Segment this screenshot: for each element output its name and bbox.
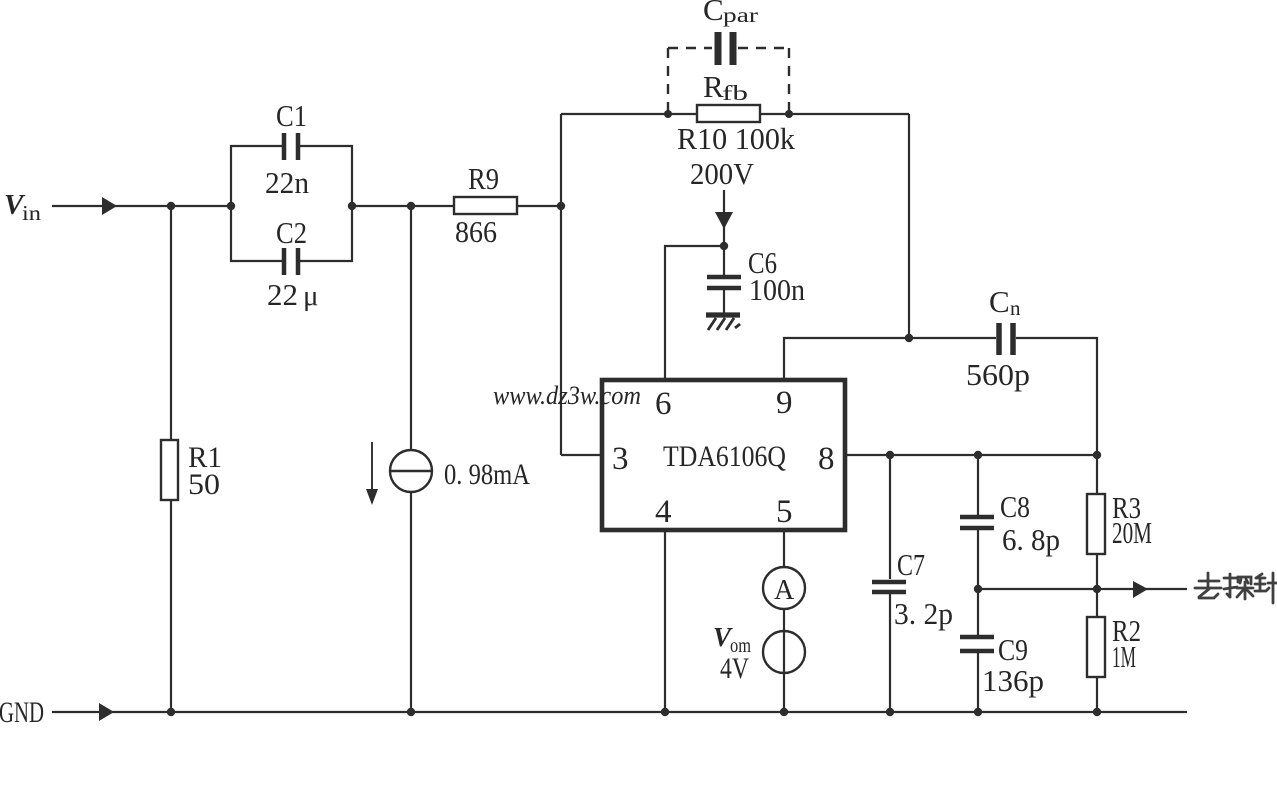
svg-text:100n: 100n	[749, 272, 805, 307]
node 去探针 label (drawn strokes)	[1195, 573, 1277, 603]
capacitor C6	[723, 246, 725, 276]
wire right feedback vertical	[908, 114, 910, 338]
capacitor Cpar (dashed)	[668, 48, 789, 112]
svg-text:n: n	[1010, 296, 1021, 320]
svg-text:8: 8	[818, 441, 835, 477]
svg-text:C8: C8	[1000, 489, 1030, 524]
wire left vertical (Vin to GND through R1)	[170, 206, 172, 440]
针	[1256, 574, 1262, 578]
wire R9 to feedback node	[517, 205, 561, 207]
svg-text:μ: μ	[303, 280, 319, 312]
svg-text:C9: C9	[998, 632, 1028, 667]
svg-text:4V: 4V	[720, 652, 749, 685]
svg-text:www.dz3w.com: www.dz3w.com	[493, 381, 641, 410]
current source direction arrow	[371, 442, 373, 492]
svg-text:C: C	[989, 284, 1010, 319]
wire C6 node to pin6	[665, 246, 724, 380]
探	[1229, 574, 1232, 597]
node GND/R1 junction	[167, 708, 175, 716]
svg-text:R9: R9	[468, 161, 499, 196]
wire probe rail	[978, 588, 1187, 590]
input arrow	[102, 197, 117, 215]
op-amp U1 TDA6106Q	[602, 380, 845, 530]
svg-text:200V: 200V	[690, 156, 755, 191]
wire pin9 to Cn	[784, 338, 996, 380]
node GND/C7 junction	[886, 708, 894, 716]
svg-text:9: 9	[776, 385, 793, 421]
svg-text:R: R	[703, 69, 724, 104]
capacitor C7	[889, 455, 891, 579]
wire pin5 to ammeter	[783, 530, 785, 567]
node Cn rail junction	[905, 334, 913, 342]
wire input node to cap box	[171, 205, 232, 207]
200V supply arrow	[723, 190, 725, 246]
200V supply label	[690, 156, 755, 191]
wire pin3 lead	[561, 454, 602, 456]
svg-text:C2: C2	[276, 215, 307, 250]
node C6 junction	[720, 242, 728, 250]
capacitor C1	[284, 133, 298, 160]
svg-text:50: 50	[188, 468, 220, 501]
wire Cn to right vertical	[1016, 338, 1097, 455]
capacitor C2	[284, 248, 298, 275]
node input junction	[167, 202, 175, 210]
wire cap box to R9	[352, 205, 454, 207]
node pin8/C8 junction	[974, 451, 982, 459]
wire Vin input lead	[52, 205, 171, 207]
node R9 right junction	[557, 202, 565, 210]
GND arrow	[99, 703, 114, 721]
resistor R9	[454, 197, 517, 214]
node pin8/R3 junction	[1093, 451, 1101, 459]
node current source branch junction	[407, 202, 415, 210]
去	[1207, 573, 1210, 588]
wire ammeter to Vom source	[783, 609, 785, 712]
svg-text:C: C	[703, 0, 724, 27]
node pin8/C7 junction	[886, 451, 894, 459]
node GND/current source junction	[407, 708, 415, 716]
node GND/Vom junction	[780, 708, 788, 716]
svg-text:C7: C7	[897, 547, 925, 582]
svg-text:TDA6106Q: TDA6106Q	[663, 440, 786, 473]
svg-text:1M: 1M	[1112, 639, 1136, 674]
svg-text:par: par	[723, 3, 758, 27]
svg-text:4: 4	[655, 494, 672, 530]
svg-text:136p: 136p	[982, 663, 1044, 698]
wire GND rail	[52, 711, 1187, 713]
svg-text:6. 8p: 6. 8p	[1002, 522, 1060, 557]
ground symbol	[706, 312, 740, 317]
svg-text:22: 22	[267, 277, 298, 312]
svg-text:R10 100k: R10 100k	[677, 121, 795, 156]
current source I1 0.98mA	[390, 450, 432, 492]
svg-text:20M: 20M	[1112, 515, 1152, 550]
svg-text:866: 866	[455, 214, 497, 249]
ammeter A	[763, 567, 805, 609]
svg-text:3. 2p: 3. 2p	[894, 596, 953, 631]
resistor R1	[161, 440, 178, 500]
wire current source branch top	[410, 206, 412, 450]
svg-text:3: 3	[612, 441, 629, 477]
wire pin4 to GND	[664, 530, 666, 712]
node Cpar left junction	[664, 110, 672, 118]
node C8/C9 probe junction	[974, 585, 982, 593]
svg-text:560p: 560p	[966, 357, 1030, 392]
svg-text:in: in	[22, 201, 42, 225]
wire parallel cap box frame	[231, 146, 282, 206]
wire current source to GND	[410, 492, 412, 712]
svg-text:22n: 22n	[265, 165, 309, 200]
wire top feedback rail	[561, 113, 697, 115]
node GND label	[0, 696, 44, 729]
node R3/R2 probe junction	[1093, 585, 1101, 593]
node cap box right junction	[348, 202, 356, 210]
voltage source Vom 4V	[763, 631, 805, 673]
resistor R3	[1096, 455, 1098, 494]
node cap box left junction	[227, 202, 235, 210]
svg-text:fb: fb	[722, 81, 748, 105]
capacitor Cn	[999, 323, 1013, 355]
wire pin8 rail	[845, 454, 1097, 456]
capacitor C9	[977, 589, 979, 636]
resistor R2	[1096, 589, 1098, 617]
watermark www.dz3w.com	[493, 381, 641, 410]
node GND/pin4 junction	[661, 708, 669, 716]
capacitor C8	[977, 455, 979, 516]
node GND/R2 junction	[1093, 708, 1101, 716]
svg-text:GND: GND	[0, 696, 44, 729]
svg-text:5: 5	[776, 494, 793, 530]
node Vin label	[4, 189, 42, 225]
svg-text:0. 98mA: 0. 98mA	[444, 458, 530, 491]
resistor Rfb R10	[697, 105, 760, 122]
wire feedback vertical to pin3	[560, 114, 562, 455]
node GND/C9 junction	[974, 708, 982, 716]
node Cpar right junction	[785, 110, 793, 118]
svg-text:A: A	[774, 575, 795, 606]
svg-text:C1: C1	[276, 98, 307, 133]
probe arrow	[1133, 581, 1148, 598]
svg-text:6: 6	[655, 386, 672, 422]
